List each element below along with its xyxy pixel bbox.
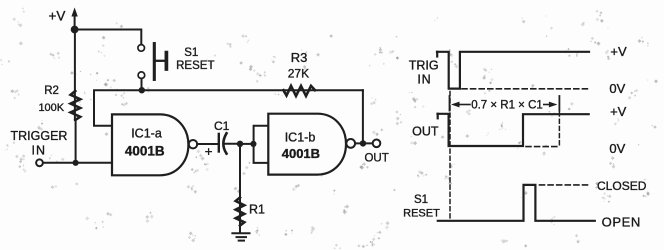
svg-text:IC1-a: IC1-a (131, 127, 162, 141)
wire: IC1-a output to C1 (197, 143, 218, 145)
annotation 0.7 x R1 x C1 with arrows (450, 96, 560, 112)
node: trigger junction (73, 160, 79, 166)
resistor R3 27K (284, 50, 316, 96)
label TRIG IN (409, 58, 439, 86)
terminal: OUT (364, 140, 388, 165)
svg-text:OPEN: OPEN (602, 214, 641, 229)
svg-text:100K: 100K (38, 102, 64, 114)
wire: C1 node down to R1 (239, 144, 241, 233)
node: output junction (360, 140, 366, 146)
dashed CLOSED level (540, 184, 591, 186)
dashed marker: timeout instant (558, 112, 560, 147)
wire: feedback vertical from output junction (362, 90, 364, 143)
resistor R1 (236, 198, 265, 226)
svg-text:R3: R3 (291, 50, 308, 65)
switch S1 RESET pushbutton (138, 44, 215, 80)
svg-text:C1: C1 (214, 119, 230, 133)
svg-text:TRIG: TRIG (409, 58, 439, 72)
label S1 RESET (403, 194, 440, 220)
svg-text:+V: +V (610, 104, 627, 119)
ground (232, 233, 249, 240)
wire: C1 to R1 node (226, 143, 241, 145)
node: IC1-b input junction (250, 141, 256, 147)
waveform S1 RESET (438, 185, 595, 221)
svg-text:0V: 0V (609, 141, 625, 156)
wire: junction to IC1-b input node (240, 143, 253, 145)
svg-text:CLOSED: CLOSED (597, 179, 647, 193)
+V supply label and arrow (49, 8, 78, 30)
dashed OUT timeout alternative (526, 146, 558, 148)
svg-text:R2: R2 (44, 85, 59, 97)
capacitor C1 polarized (206, 119, 230, 154)
level labels (597, 44, 647, 229)
wire: R1 to ground (239, 226, 241, 233)
svg-text:IN: IN (32, 143, 47, 157)
svg-text:0V: 0V (609, 81, 625, 96)
gate IC1-a 4001B NOR (112, 114, 197, 175)
wire: +V rail to switch top contact (75, 30, 142, 45)
dashed 0V level TRIG IN (462, 88, 589, 90)
svg-text:4001B: 4001B (282, 146, 320, 161)
svg-text:IN: IN (417, 72, 431, 86)
node: S1 / feedback junction (139, 87, 145, 93)
svg-text:RESET: RESET (176, 60, 214, 72)
svg-text:S1: S1 (184, 47, 198, 59)
svg-text:4001B: 4001B (125, 144, 165, 159)
gate IC1-b 4001B NOR (268, 114, 355, 175)
svg-text:OUT: OUT (412, 125, 439, 139)
svg-text:TRIGGER: TRIGGER (11, 129, 68, 143)
resistor R2 100K (38, 85, 80, 120)
wire: R2 down to trigger node (75, 120, 77, 163)
wire: +V node down to R2 (74, 30, 76, 121)
wire: feedback top right segment (284, 89, 363, 91)
svg-text:R1: R1 (249, 203, 265, 217)
svg-text:OUT: OUT (364, 152, 388, 164)
svg-text:S1: S1 (414, 194, 428, 206)
svg-text:+V: +V (49, 9, 66, 24)
svg-text:0.7 × R1 × C1: 0.7 × R1 × C1 (471, 100, 543, 112)
node: C1 / R1 junction (237, 141, 243, 147)
terminal: TRIGGER IN (11, 129, 68, 166)
wire: S1 bottom contact down to feedback line (141, 79, 143, 91)
waveform TRIG IN (437, 52, 589, 89)
svg-text:+V: +V (610, 44, 627, 59)
dashed marker: trigger instant (449, 92, 451, 221)
wire: feedback line to IC1-a upper input (94, 90, 284, 126)
wire: trigger input to IC1-a lower input (43, 162, 112, 164)
wire: IC1-b input bracket (254, 126, 268, 163)
wire: IC1-b output to OUT terminal (355, 142, 372, 144)
waveform OUT (438, 114, 589, 146)
node: +V rail junction (71, 26, 79, 34)
svg-text:RESET: RESET (403, 207, 440, 219)
svg-text:27K: 27K (288, 66, 309, 80)
svg-text:IC1-b: IC1-b (285, 131, 316, 145)
